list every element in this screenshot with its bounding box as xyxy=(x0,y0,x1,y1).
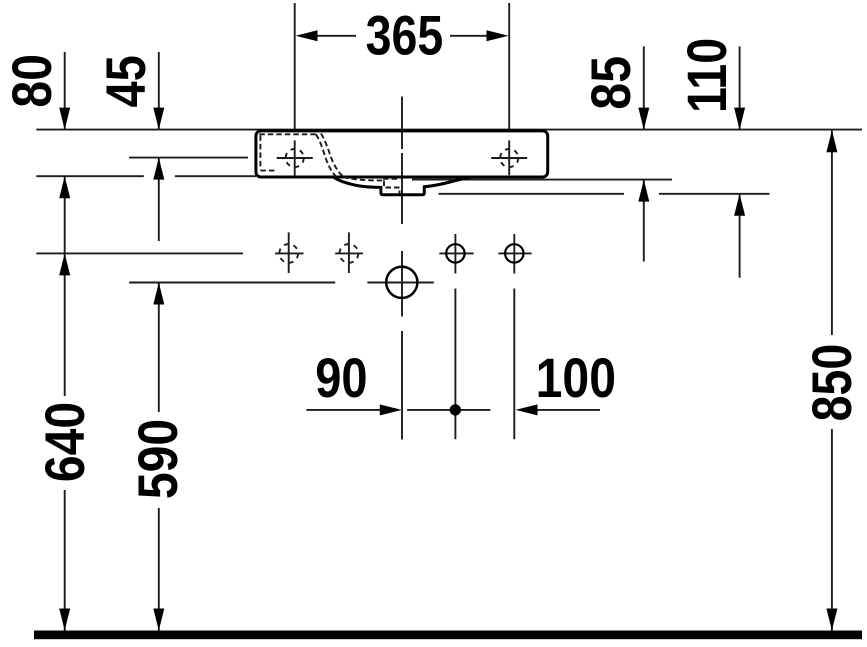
svg-text:100: 100 xyxy=(536,348,616,410)
floor bar xyxy=(34,631,862,640)
arrow 85 up xyxy=(638,180,649,202)
dim 365 right extension line xyxy=(508,3,510,130)
reference dot on 90/100 line xyxy=(450,404,461,415)
arrow 110 up xyxy=(734,194,745,216)
svg-text:640: 640 xyxy=(35,402,97,482)
dim 640 shaft lower xyxy=(64,490,66,631)
arrow 90 right xyxy=(380,404,402,415)
svg-text:850: 850 xyxy=(800,344,863,422)
arrow 640 down xyxy=(59,609,70,631)
arrow 850 up xyxy=(826,130,837,152)
svg-text:85: 85 xyxy=(581,56,643,110)
basin bowl underside with drain stub xyxy=(334,177,470,195)
svg-text:110: 110 xyxy=(675,38,738,113)
right faucet hole crosshair horizontal xyxy=(491,157,527,159)
dim 850 shaft upper xyxy=(831,130,833,335)
hidden pocket top dashed line xyxy=(259,133,316,135)
hidden bowl bottom dashed line xyxy=(343,177,383,180)
arrow 100 left xyxy=(516,404,538,415)
hole 3 centerline horizontal xyxy=(439,252,473,254)
dim 85 shaft lower xyxy=(643,180,645,262)
arrow 110 down xyxy=(734,108,745,130)
hole 1 centerline vertical xyxy=(288,232,290,273)
left faucet hole dashed circle xyxy=(286,149,304,167)
110-level line left segment xyxy=(439,193,625,195)
dim 110 shaft lower xyxy=(739,194,741,278)
45-level line xyxy=(129,157,248,159)
hole 2 centerline vertical xyxy=(348,232,350,273)
svg-text:45: 45 xyxy=(94,55,157,107)
arrow 85 down xyxy=(638,108,649,130)
hole 4 centerline vertical upper xyxy=(513,234,515,274)
hidden pocket bottom dashed line xyxy=(260,170,277,172)
centerline segment lower xyxy=(401,331,403,440)
left faucet hole crosshair vertical xyxy=(294,140,296,176)
right faucet hole crosshair vertical xyxy=(508,140,510,175)
hole 3 centerline vertical upper xyxy=(454,234,456,274)
hole 3 centerline vertical lower xyxy=(454,289,456,440)
110-level line right segment xyxy=(659,193,770,195)
dim 45 shaft upper xyxy=(158,52,160,130)
left faucet hole crosshair horizontal xyxy=(277,157,313,159)
dim 590 shaft lower xyxy=(158,508,160,631)
hole 1 dashed circle xyxy=(279,244,298,263)
640-level line xyxy=(36,252,243,254)
centerline segment above basin xyxy=(401,97,403,150)
arrow 850 down xyxy=(826,609,837,631)
dim 90 line xyxy=(306,409,380,411)
590-level line through siphon circle xyxy=(367,282,433,284)
hole 1 centerline horizontal xyxy=(275,252,304,254)
svg-text:80: 80 xyxy=(1,54,63,108)
arrow 45 down xyxy=(153,108,164,130)
dim 110 shaft upper xyxy=(739,46,741,129)
dim 85 shaft upper xyxy=(643,46,645,129)
590-level line left segment xyxy=(129,282,335,284)
hidden bowl edge dashed curve inner xyxy=(321,134,343,177)
arrow 590 up xyxy=(153,283,164,305)
siphon circle xyxy=(386,267,417,298)
dim 365 line left segment xyxy=(318,35,357,37)
svg-text:90: 90 xyxy=(315,346,367,409)
arrow 45 up xyxy=(153,158,164,180)
dim 850 shaft lower xyxy=(831,429,833,631)
centerline segment through basin xyxy=(401,153,403,224)
arrow 80 down xyxy=(59,108,70,130)
dim 90/100 middle segment xyxy=(407,409,490,411)
dim 590 shaft xyxy=(158,283,160,413)
hole 3 solid circle xyxy=(446,244,464,262)
dim 100 line xyxy=(538,409,601,411)
hole 4 centerline horizontal xyxy=(498,252,531,254)
wall reference line (rim level) xyxy=(36,129,862,131)
basin body outline xyxy=(256,131,548,177)
centerline segment through siphon circle xyxy=(401,251,403,317)
hole 4 centerline vertical lower xyxy=(513,289,515,440)
svg-text:365: 365 xyxy=(366,3,444,66)
dim 80/640 shaft xyxy=(64,176,66,396)
hidden drain top dashed line xyxy=(383,178,400,180)
arrow 640 up xyxy=(59,253,70,275)
hole 2 centerline horizontal xyxy=(335,252,363,254)
hidden pocket left dashed line xyxy=(259,135,261,169)
arrow 80 up xyxy=(59,176,70,198)
arrow 365 right xyxy=(487,30,509,41)
dim 365 line right segment xyxy=(450,35,487,37)
85-level line xyxy=(412,179,672,181)
80-level line left segment xyxy=(36,175,144,177)
arrow 590 down xyxy=(153,609,164,631)
80-level line right segment xyxy=(175,175,256,177)
dim 80 shaft upper xyxy=(64,52,66,130)
dim 365 left extension line xyxy=(294,3,296,130)
hole 4 solid circle xyxy=(505,244,523,262)
svg-text:590: 590 xyxy=(128,419,190,499)
arrow 365 left xyxy=(296,30,318,41)
hidden drain outline dashed xyxy=(384,181,400,194)
hole 2 dashed circle xyxy=(340,244,359,263)
right faucet hole dashed circle xyxy=(500,149,518,167)
dim 45 shaft lower xyxy=(158,158,160,241)
hidden bowl edge dashed curve outer xyxy=(316,134,336,176)
